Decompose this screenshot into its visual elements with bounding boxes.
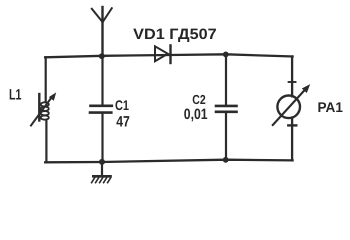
svg-text:C2: C2 [192, 92, 205, 107]
diode VD1 [155, 45, 171, 63]
svg-text:47: 47 [116, 113, 130, 130]
wire left vertical lower [45, 121, 47, 163]
node C2 bottom junction [223, 157, 229, 163]
node antenna junction [99, 53, 105, 59]
wire left vertical upper [45, 57, 47, 101]
ground [92, 162, 111, 183]
meter PA1 [273, 79, 310, 125]
wire right vertical lower [291, 118, 293, 161]
node C2 top junction [223, 52, 229, 58]
capacitor C2 [216, 106, 237, 112]
svg-text:0,01: 0,01 [184, 106, 208, 123]
svg-text:VD1 ГД507: VD1 ГД507 [133, 26, 217, 43]
wire top horizontal [45, 54, 292, 57]
wire C2 lower [225, 113, 227, 160]
wire bottom horizontal [45, 160, 292, 163]
capacitor C1 [90, 106, 112, 113]
inductor L1 [31, 92, 56, 125]
node ground junction [99, 159, 105, 165]
wire right vertical upper [291, 57, 293, 97]
svg-text:L1: L1 [9, 87, 22, 104]
svg-text:C1: C1 [115, 97, 129, 113]
wire C1 upper [101, 56, 103, 104]
wire C1 lower [101, 114, 103, 162]
wire C2 upper [225, 54, 227, 104]
svg-text:PA1: PA1 [318, 99, 344, 115]
antenna [92, 7, 112, 57]
